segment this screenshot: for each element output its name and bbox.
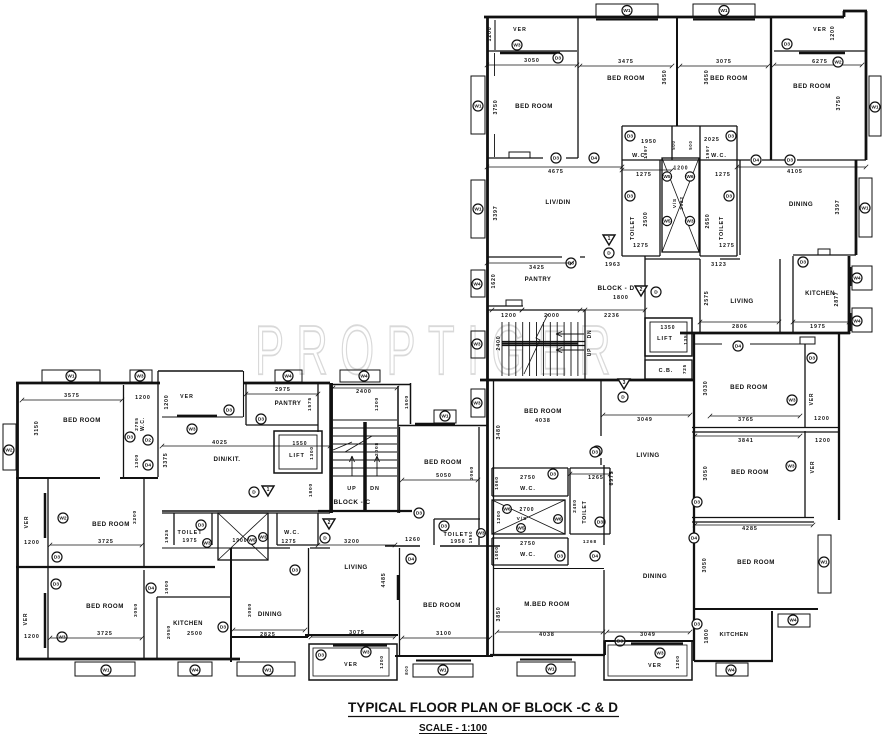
wall VER D1 bottom (487, 50, 577, 52)
svg-text:3050: 3050 (702, 558, 708, 573)
dim 1265 line (568, 472, 612, 476)
svg-text:VER: VER (809, 393, 815, 406)
svg-text:D4: D4 (148, 586, 154, 592)
door D3 marker (224, 405, 234, 415)
svg-text:1200: 1200 (24, 634, 40, 640)
wall VER A west (804, 344, 806, 428)
svg-text:D3: D3 (728, 134, 734, 140)
svg-text:W1: W1 (861, 206, 869, 212)
wall bedroom1 west inner (494, 53, 496, 157)
svg-text:W1: W1 (547, 667, 555, 673)
svg-text:DINING: DINING (643, 573, 667, 580)
svg-text:1: 1 (608, 236, 611, 242)
stairs D top wall (487, 309, 585, 311)
door D3 marker (566, 258, 576, 268)
window W4 marker (190, 665, 200, 675)
dim 3200 line (316, 543, 397, 547)
svg-text:3765: 3765 (738, 417, 754, 423)
svg-text:4105: 4105 (787, 169, 803, 175)
svg-text:3850: 3850 (496, 607, 502, 622)
svg-text:BED ROOM: BED ROOM (92, 521, 130, 528)
stairs D arrow DN (556, 332, 584, 337)
svg-text:1975: 1975 (810, 324, 826, 330)
svg-text:LIVING: LIVING (636, 452, 659, 459)
window W6 marker (685, 172, 694, 181)
svg-text:3049: 3049 (640, 632, 656, 638)
wall C south (16, 658, 240, 661)
svg-text:1: 1 (267, 487, 270, 493)
wall bed5050 east (478, 427, 480, 545)
svg-text:1260: 1260 (405, 537, 421, 543)
stairs D treads (502, 322, 578, 376)
svg-text:D3: D3 (809, 356, 815, 362)
wall bedroom2 east (676, 17, 678, 126)
door D4 marker (689, 533, 699, 543)
svg-text:C.B.: C.B. (659, 368, 674, 374)
svg-text:W3: W3 (787, 464, 795, 470)
svg-text:D3: D3 (54, 555, 60, 561)
door D3 marker (724, 191, 734, 201)
svg-text:2750: 2750 (520, 475, 536, 481)
VER box bottom right (604, 641, 692, 680)
wall block D west (486, 16, 489, 657)
svg-text:3475: 3475 (618, 59, 634, 65)
svg-text:BED ROOM: BED ROOM (710, 75, 748, 82)
svg-text:D3: D3 (198, 523, 204, 529)
svg-text:DINING: DINING (258, 611, 282, 618)
svg-text:1200: 1200 (24, 540, 40, 546)
wall kitchen DR east (771, 611, 773, 661)
svg-text:2500: 2500 (643, 212, 649, 227)
window W1 top-left box (596, 4, 658, 17)
window dark bar ver C1 (44, 493, 47, 538)
wall bed3100 west (399, 548, 401, 656)
svg-text:W1: W1 (441, 414, 449, 420)
window W4 marker (852, 273, 862, 283)
window W3 marker (786, 461, 796, 471)
entry marker D (651, 287, 661, 297)
window W3 marker (361, 647, 371, 657)
svg-text:TOILET: TOILET (177, 530, 202, 536)
window W1 marker (438, 665, 448, 675)
shaft C box (218, 513, 268, 560)
wall WC2 (700, 126, 737, 160)
svg-text:3650: 3650 (662, 70, 668, 85)
wall kitchen C (157, 597, 230, 660)
window box MBED south (517, 662, 575, 676)
shaft C cross (218, 513, 268, 560)
svg-text:1500: 1500 (404, 395, 410, 409)
svg-text:1200: 1200 (501, 313, 517, 319)
svg-text:W6: W6 (686, 174, 694, 180)
svg-text:BED ROOM: BED ROOM (730, 384, 768, 391)
wall kitchen D west (792, 256, 794, 333)
svg-text:1200: 1200 (164, 395, 170, 410)
svg-text:W3: W3 (477, 531, 485, 537)
svg-text:2650: 2650 (705, 214, 711, 229)
dim 1200 line (490, 308, 524, 312)
window W3 marker (472, 339, 482, 349)
entry marker triangle 1 (262, 486, 274, 496)
stairs D break line (524, 314, 548, 374)
svg-text:5050: 5050 (436, 473, 452, 479)
wall block D kitchen east (848, 256, 851, 334)
svg-text:D3: D3 (627, 134, 633, 140)
svg-text:DIN/KIT.: DIN/KIT. (214, 456, 241, 463)
wall pantry C south (246, 424, 318, 426)
wall toiletCR (434, 519, 480, 545)
svg-text:D3: D3 (292, 568, 298, 574)
svg-text:500: 500 (688, 140, 693, 149)
svg-text:1800: 1800 (704, 629, 710, 644)
wall bedroom1 south (487, 157, 578, 159)
window W1 marker (819, 557, 829, 567)
svg-text:3425: 3425 (529, 265, 545, 271)
svg-text:W1: W1 (264, 668, 272, 674)
wall stairs D right (584, 310, 586, 379)
wall stairs D bottom (480, 379, 694, 382)
svg-text:1997: 1997 (705, 145, 710, 158)
wall bedroom4038 east (600, 380, 602, 465)
window W3 marker (787, 395, 797, 405)
svg-text:W2: W2 (834, 60, 842, 66)
door D3 marker (290, 565, 300, 575)
door D3 marker (551, 153, 561, 163)
door D3 marker (782, 39, 792, 49)
wall block D dining east (855, 160, 858, 255)
door D3 marker (595, 517, 605, 527)
svg-text:3200: 3200 (344, 539, 360, 545)
wall bedroom C2 east (143, 478, 145, 567)
svg-text:D4: D4 (592, 554, 598, 560)
svg-text:KITCHEN: KITCHEN (720, 632, 749, 638)
door D3 marker (798, 257, 808, 267)
svg-text:D4: D4 (691, 536, 697, 542)
wall VER B west (804, 431, 806, 517)
window W1 marker (66, 371, 76, 381)
svg-text:500: 500 (671, 140, 676, 149)
svg-text:1200: 1200 (496, 510, 501, 523)
lift C inner (279, 435, 317, 469)
svg-text:3725: 3725 (98, 539, 114, 545)
window W3 west box (471, 331, 485, 358)
door bump dining (818, 249, 830, 255)
wall VER D2 bottom (774, 50, 866, 52)
svg-text:TOILET: TOILET (582, 500, 588, 523)
window W1 east box bedC (818, 535, 831, 593)
dim 2825 line (231, 628, 307, 632)
svg-text:W4: W4 (473, 282, 481, 288)
svg-text:BED ROOM: BED ROOM (423, 602, 461, 609)
window W1 west box (471, 76, 485, 134)
svg-text:D4: D4 (145, 463, 151, 469)
wall corridor D south (645, 258, 740, 260)
lift D outer (645, 318, 692, 356)
svg-text:KITCHEN: KITCHEN (805, 291, 835, 297)
svg-text:VER: VER (648, 663, 662, 669)
svg-text:1300: 1300 (309, 446, 314, 459)
svg-text:BED ROOM: BED ROOM (793, 83, 831, 90)
svg-text:1925: 1925 (164, 529, 170, 543)
C.B. box (645, 360, 692, 379)
window W3 marker (259, 533, 268, 542)
door D3 marker (196, 520, 206, 530)
svg-text:PANTRY: PANTRY (275, 401, 302, 407)
window W2 marker (4, 445, 14, 455)
dim 6275 line (772, 63, 864, 67)
svg-text:4025: 4025 (212, 440, 228, 446)
svg-text:D4: D4 (735, 344, 741, 350)
svg-text:W3: W3 (473, 401, 481, 407)
dim 3765 line (708, 414, 802, 418)
window W2 marker (58, 513, 68, 523)
svg-text:TOILET: TOILET (630, 216, 636, 240)
svg-text:W6: W6 (503, 507, 511, 513)
shaft V/S cross (662, 158, 699, 252)
wall MBED east (603, 465, 605, 655)
door D3 marker (798, 257, 808, 267)
dim 3049 line2 (605, 630, 692, 634)
svg-text:W.C.: W.C. (520, 486, 536, 492)
wall flat DL west double (493, 380, 495, 655)
svg-text:3841: 3841 (738, 438, 754, 444)
window W1 marker (263, 665, 273, 675)
shaft DL box (492, 500, 565, 534)
svg-text:D3: D3 (550, 472, 556, 478)
VER C bottom box (309, 644, 397, 680)
svg-text:1800: 1800 (308, 483, 314, 497)
wall stairs C south (318, 510, 412, 512)
VER box bottom right inner (608, 645, 687, 676)
dim 4105 line (735, 165, 868, 169)
svg-text:D3: D3 (597, 520, 603, 526)
dim 1975 line (791, 320, 851, 324)
window sill VER C (333, 644, 387, 646)
svg-text:3397: 3397 (493, 206, 499, 221)
svg-text:2785: 2785 (134, 417, 139, 430)
wall toilet2 (700, 160, 737, 256)
window sill VER D1 (500, 52, 560, 55)
wall bedroom1 east (577, 17, 579, 158)
window W4 box top1 (275, 370, 302, 382)
svg-text:D: D (654, 290, 658, 296)
svg-text:LIFT: LIFT (657, 336, 673, 342)
svg-text:725: 725 (682, 364, 687, 374)
svg-text:W3: W3 (513, 43, 521, 49)
wall C west (16, 383, 19, 660)
svg-text:BED ROOM: BED ROOM (737, 559, 775, 566)
svg-text:1575: 1575 (307, 397, 313, 411)
window W4 east box kitchen2 (852, 308, 872, 332)
wall bed5050 west (399, 427, 401, 513)
svg-text:1975: 1975 (182, 538, 197, 544)
wall WC1 DL (492, 468, 568, 496)
svg-text:3150: 3150 (34, 421, 40, 436)
svg-text:1200: 1200 (673, 166, 688, 172)
svg-text:3080: 3080 (247, 603, 253, 617)
svg-text:D3: D3 (226, 408, 232, 414)
svg-text:KITCHEN: KITCHEN (173, 621, 203, 627)
wall flat DR east (838, 333, 840, 520)
wall flat DR div2 (692, 518, 814, 523)
svg-text:1265: 1265 (588, 475, 604, 481)
svg-text:V/S: V/S (672, 198, 678, 208)
wall bedroomC south (694, 608, 818, 610)
dim 2806 line (698, 320, 781, 324)
svg-text:W5: W5 (663, 219, 671, 225)
door D3 marker (414, 508, 424, 518)
wall pantry south (487, 305, 523, 307)
wall living C south (305, 634, 398, 636)
svg-text:W1: W1 (474, 104, 482, 110)
window sill VER DR (631, 642, 683, 644)
svg-text:6275: 6275 (812, 59, 828, 65)
svg-text:1200: 1200 (814, 416, 830, 422)
door D4 marker (589, 153, 599, 163)
shaft V/S box (662, 158, 699, 252)
stairs C arrow up2 (375, 456, 380, 476)
window W3 marker (655, 648, 665, 658)
svg-text:1200: 1200 (830, 26, 836, 41)
svg-text:1200: 1200 (675, 655, 680, 668)
svg-text:1963: 1963 (605, 262, 621, 268)
svg-text:BED ROOM: BED ROOM (524, 408, 562, 415)
svg-text:D3: D3 (441, 524, 447, 530)
svg-text:D3: D3 (555, 56, 561, 62)
svg-text:BED ROOM: BED ROOM (63, 417, 101, 424)
wall flat DR div1 (692, 428, 839, 433)
svg-text:1800: 1800 (613, 295, 629, 301)
door D3 marker (615, 636, 625, 646)
svg-text:W2: W2 (59, 516, 67, 522)
window dark bar ver C2 (44, 593, 47, 648)
svg-text:2975: 2975 (275, 387, 291, 393)
wall dining DL south (605, 641, 694, 655)
svg-text:2236: 2236 (604, 313, 620, 319)
svg-text:3050: 3050 (524, 58, 540, 64)
window W1 box south2 (237, 662, 295, 676)
wall MBED north (493, 568, 604, 570)
svg-text:W3: W3 (473, 342, 481, 348)
window W1 east box dining (859, 178, 872, 237)
svg-text:D3: D3 (627, 194, 633, 200)
wall bedrooms south right (737, 159, 866, 161)
svg-text:BED ROOM: BED ROOM (515, 103, 553, 110)
svg-text:W1: W1 (102, 668, 110, 674)
window sill top-left (596, 19, 658, 21)
svg-text:3397: 3397 (835, 200, 841, 215)
wall C pantry top (243, 382, 330, 385)
svg-text:VER: VER (24, 516, 30, 529)
stairs D mid dark (502, 342, 578, 344)
entry marker triangle 2 (635, 286, 647, 296)
svg-text:3050: 3050 (703, 466, 709, 481)
svg-text:1950: 1950 (450, 539, 465, 545)
svg-text:D3: D3 (784, 42, 790, 48)
stairs D arrow UP (556, 348, 584, 353)
svg-text:W.C.: W.C. (520, 552, 536, 558)
wall C top (16, 382, 160, 385)
svg-text:W5: W5 (663, 174, 671, 180)
svg-text:1060: 1060 (494, 476, 499, 489)
svg-text:2000: 2000 (544, 313, 560, 319)
door D3 marker (625, 191, 635, 201)
wall bedroom C1 south (16, 477, 158, 479)
svg-text:2400: 2400 (356, 389, 372, 395)
door D4 marker (146, 583, 156, 593)
svg-text:1550: 1550 (292, 441, 307, 447)
svg-text:W4: W4 (284, 374, 292, 380)
door D3 marker (625, 131, 635, 141)
svg-text:PANTRY: PANTRY (525, 277, 552, 283)
dim 5050 line (400, 478, 480, 482)
svg-text:TYPICAL FLOOR PLAN OF BLOCK -C: TYPICAL FLOOR PLAN OF BLOCK -C & D (348, 700, 618, 715)
svg-text:1000: 1000 (164, 580, 170, 594)
svg-text:LIV/DIN: LIV/DIN (545, 199, 570, 206)
lift C outer (274, 431, 322, 473)
wall WC C (157, 371, 159, 477)
window W4 west box (471, 270, 485, 297)
svg-text:D3: D3 (416, 511, 422, 517)
svg-text:D3: D3 (694, 500, 700, 506)
wall flat DR west (693, 333, 695, 661)
wall dining C top (231, 547, 330, 549)
stairs C left wall (331, 383, 333, 513)
window W2 box west (3, 424, 16, 470)
window W1 marker (101, 665, 111, 675)
wall bedroom3 east (770, 17, 772, 160)
wall bedroom C3 east (143, 570, 145, 660)
window box bedroom1 south (509, 152, 530, 158)
wall kitchen DR south (694, 660, 773, 662)
door D3 marker (692, 619, 702, 629)
svg-text:D4: D4 (591, 156, 597, 162)
window W5 marker (248, 536, 257, 545)
window W4 box top2 (340, 370, 380, 382)
svg-text:1200: 1200 (379, 655, 384, 668)
svg-text:W.C.: W.C. (140, 417, 146, 431)
svg-text:W4: W4 (853, 276, 861, 282)
wall corridor C2 (385, 545, 500, 547)
entry marker triangle 3 (618, 379, 630, 389)
wall living C west (308, 548, 310, 637)
wall living DR west (699, 259, 701, 333)
svg-text:D3: D3 (592, 450, 598, 456)
door D3 marker (52, 552, 62, 562)
svg-text:D: D (621, 395, 625, 401)
svg-text:W5: W5 (517, 526, 525, 532)
svg-text:4675: 4675 (548, 169, 564, 175)
window W1 west box 2 (471, 180, 485, 238)
wall VER D1 inner (494, 20, 496, 50)
svg-text:1200: 1200 (374, 397, 380, 411)
window W4 box south1 (178, 662, 212, 676)
svg-text:3100: 3100 (436, 631, 452, 637)
door D3 marker (807, 353, 817, 363)
wall pantry C west (245, 383, 247, 425)
dim 1275 line (620, 168, 674, 172)
wall DINKIT south (162, 510, 330, 512)
svg-text:W1: W1 (474, 207, 482, 213)
dim 3100 line (400, 636, 492, 640)
svg-text:W3: W3 (362, 650, 370, 656)
svg-text:BED ROOM: BED ROOM (86, 603, 124, 610)
door D3 marker (548, 469, 558, 479)
svg-text:D3: D3 (557, 554, 563, 560)
wall bed3100 south (395, 655, 493, 657)
svg-text:VER: VER (513, 27, 527, 33)
window dark bar kitchen1 (849, 267, 852, 286)
